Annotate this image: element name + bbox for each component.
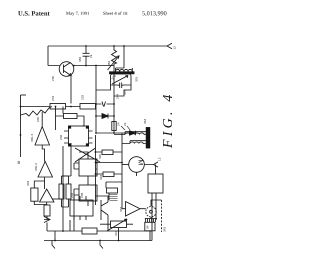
- svg-text:24: 24: [117, 122, 121, 126]
- svg-text:330-2: 330-2: [34, 163, 38, 171]
- svg-text:370: 370: [111, 74, 118, 81]
- svg-text:378: 378: [123, 90, 127, 95]
- svg-text:242: 242: [51, 96, 55, 101]
- svg-text:244: 244: [116, 94, 120, 99]
- svg-text:34: 34: [146, 225, 150, 229]
- svg-text:FIG. 4: FIG. 4: [161, 91, 176, 149]
- svg-text:Sheet 4 of 18: Sheet 4 of 18: [103, 11, 128, 16]
- svg-text:8: 8: [17, 160, 20, 165]
- svg-text:May 7, 1991: May 7, 1991: [66, 11, 90, 17]
- svg-text:334: 334: [26, 181, 30, 186]
- svg-text:240: 240: [36, 117, 40, 122]
- svg-text:12: 12: [173, 46, 177, 50]
- svg-text:320: 320: [98, 154, 102, 159]
- svg-text:330-3: 330-3: [30, 134, 34, 142]
- svg-text:248: 248: [80, 193, 84, 198]
- svg-text:230: 230: [51, 76, 55, 81]
- svg-text:232: 232: [81, 95, 85, 100]
- svg-text:344: 344: [114, 231, 118, 236]
- svg-text:384: 384: [107, 61, 111, 66]
- svg-text:236: 236: [59, 135, 63, 140]
- svg-text:382: 382: [78, 57, 82, 62]
- svg-text:332: 332: [119, 207, 123, 212]
- svg-text:364: 364: [143, 119, 147, 124]
- svg-text:12: 12: [158, 157, 162, 161]
- svg-text:5,013,990: 5,013,990: [142, 10, 167, 17]
- svg-text:342: 342: [163, 227, 167, 232]
- svg-text:M: M: [137, 159, 144, 165]
- svg-text:2k: 2k: [123, 122, 127, 126]
- svg-text:322: 322: [99, 175, 103, 180]
- svg-text:U.S. Patent: U.S. Patent: [18, 10, 50, 17]
- svg-text:246: 246: [70, 193, 74, 198]
- svg-text:376: 376: [135, 77, 139, 82]
- svg-text:2k: 2k: [89, 54, 93, 58]
